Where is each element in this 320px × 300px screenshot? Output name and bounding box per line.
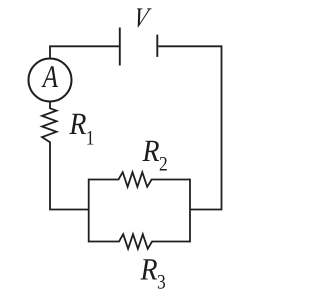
- svg-text:V: V: [131, 3, 154, 34]
- svg-text:R: R: [69, 106, 87, 141]
- svg-text:R: R: [142, 133, 160, 168]
- svg-text:1: 1: [86, 128, 95, 150]
- svg-text:A: A: [41, 59, 58, 94]
- svg-text:3: 3: [157, 271, 166, 293]
- svg-text:R: R: [140, 251, 158, 286]
- svg-text:2: 2: [159, 154, 168, 176]
